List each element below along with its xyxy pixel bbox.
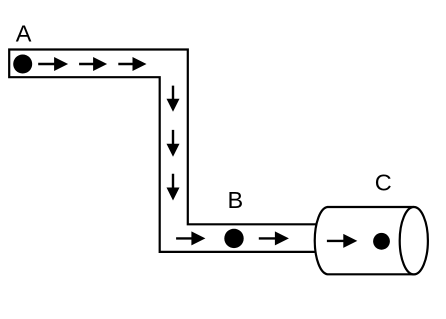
svg-text:C: C	[375, 170, 392, 196]
svg-text:A: A	[16, 21, 32, 47]
svg-text:B: B	[228, 187, 244, 213]
